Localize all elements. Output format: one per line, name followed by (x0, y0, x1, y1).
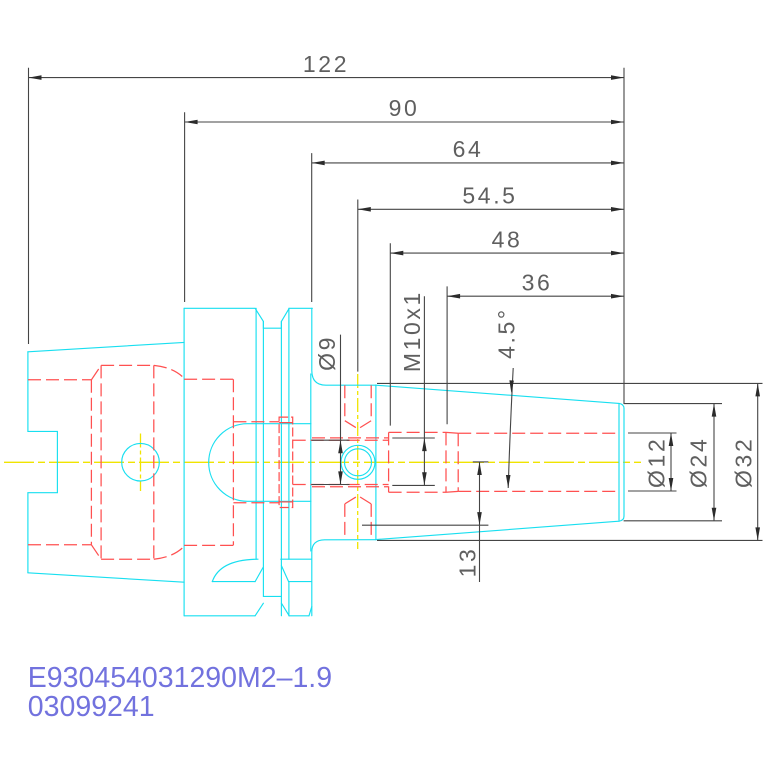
d32 top ext (377, 382, 763, 384)
d32 dim line (757, 383, 759, 540)
flange top profile with V-groove (184, 308, 312, 328)
drive key cap line top (279, 422, 293, 424)
flange right face bottom + fillet (312, 540, 376, 616)
svg-text:03099241: 03099241 (28, 691, 155, 723)
svg-text:122: 122 (303, 51, 349, 77)
coolant cross hole outer circle (341, 445, 375, 479)
flange bottom chamfer left (255, 603, 263, 616)
flange bottom chamfer right inner (281, 603, 289, 616)
drive key cap line bottom (279, 501, 293, 503)
arrow 54.5 right (611, 207, 624, 212)
taper inner circle (122, 443, 160, 481)
dim 54.5 line (358, 208, 624, 210)
arrow 13 top (477, 462, 482, 475)
arrow 90 right (611, 120, 624, 125)
thread box right wall (445, 432, 447, 492)
dim 13 vertical (479, 462, 481, 582)
cone bottom slope (376, 521, 619, 539)
flange vertical edge 281.4 (280, 321, 282, 615)
flange bottom right corner chamfer (309, 607, 312, 616)
d9 dim vertical (340, 335, 342, 485)
groove floor bottom (263, 595, 281, 597)
thread box bottom (389, 491, 446, 493)
d9 tick top (312, 439, 350, 441)
yellow vertical centerline coolant hole (357, 374, 359, 549)
bore d9 top (293, 439, 389, 441)
thread runout vertical (457, 433, 459, 491)
cone top slope (376, 385, 619, 403)
flange bottom edge right segment (289, 615, 309, 617)
arrow d32 bottom (755, 527, 760, 540)
M10 tick bottom (392, 484, 435, 486)
bore chamfer top (91, 365, 101, 379)
M10 dim vertical (423, 296, 425, 485)
dim 36 line (447, 295, 624, 297)
d24 dim line (713, 404, 715, 521)
arrow 122 right (611, 75, 624, 80)
coolant bottom bore left wall (344, 504, 346, 540)
cavity bottom line (184, 544, 233, 546)
arrow d9 top (338, 440, 343, 453)
arrow 48 left (390, 251, 403, 256)
groove waist slope right (281, 566, 288, 582)
dim 54.5 left ext (357, 200, 359, 372)
d9 tick bottom (312, 484, 350, 486)
4.5deg leader (508, 368, 513, 488)
slot bottom line (233, 502, 279, 504)
bore outer bottom line (28, 544, 91, 546)
taper bottom edge (28, 573, 184, 582)
svg-text:13: 13 (455, 547, 481, 578)
arrow 36 right (611, 294, 624, 299)
flange inner fillet line top (310, 374, 312, 551)
coolant bottom bore right wall (370, 504, 372, 540)
svg-text:Ø32: Ø32 (731, 437, 757, 488)
arrow 4.5 bottom (506, 475, 511, 488)
svg-text:E930454031290M2–1.9: E930454031290M2–1.9 (28, 662, 332, 694)
bore vertical 101.1 (100, 365, 102, 559)
flange vertical edge 288.9 lower (288, 582, 290, 616)
flange vertical edge 263.4 (262, 321, 264, 596)
d32 bottom ext (377, 539, 763, 541)
crescent base (212, 581, 255, 583)
flange left face (183, 308, 185, 616)
d12 bore bottom (458, 490, 618, 492)
dim 13 tick top (473, 461, 489, 463)
bore M10 pilot top (312, 437, 389, 439)
arrow 122 left (29, 75, 42, 80)
groove waist base right (289, 581, 312, 583)
d24 bottom ext (624, 520, 722, 522)
bore vertical 91.4 (90, 380, 92, 545)
d12 bore top (458, 432, 618, 434)
dim 13 tick bottom (362, 524, 488, 526)
gripper D-bulge (209, 424, 311, 502)
d24 top ext (624, 403, 722, 405)
dim 48 left ext (389, 243, 391, 425)
thread bottom line (101, 558, 154, 560)
arrow d9 bottom (338, 471, 343, 484)
thread top line (101, 364, 154, 366)
arrow 13 bottom (477, 512, 482, 525)
d12 bottom ext (628, 490, 677, 492)
thread-cavity arc top (154, 365, 185, 379)
crescent arc (212, 559, 258, 581)
thread-cavity arc bottom (154, 545, 185, 559)
arrow d12 top (669, 433, 674, 446)
arrow 64 left (312, 161, 325, 166)
svg-text:4.5°: 4.5° (494, 307, 520, 359)
bore chamfer bottom (91, 545, 101, 559)
cone end inner vertical (618, 405, 620, 521)
thread runout chamfer top (446, 431, 458, 434)
arrow d12 bottom (669, 478, 674, 491)
bore M10 pilot bottom (312, 486, 389, 488)
bore d9 bottom (293, 484, 389, 486)
svg-text:48: 48 (492, 226, 523, 252)
arrow d24 bottom (712, 508, 717, 521)
flange bottom edge left segment (184, 615, 255, 617)
dim 90 line (185, 121, 624, 123)
crescent chamfer (255, 567, 263, 581)
svg-text:M10x1: M10x1 (399, 290, 425, 372)
taper left face with notch (28, 352, 58, 573)
thread runout chamfer bottom (446, 490, 458, 493)
yellow vertical centerline taper circle (140, 434, 142, 492)
thread bore right vertical (153, 365, 155, 559)
arrow 64 right (611, 161, 624, 166)
cone start edge vertical (375, 385, 377, 540)
arrow M10 bottom (422, 472, 427, 485)
dim 48 line (390, 252, 624, 254)
thread box top (389, 431, 446, 433)
dim 64 left ext (311, 153, 313, 302)
dim 122 line (29, 77, 625, 79)
arrow 90 left (185, 120, 198, 125)
arrow d24 top (712, 404, 717, 417)
cone end corner top (619, 403, 624, 408)
yellow horizontal centerline (4, 461, 641, 463)
svg-text:Ø24: Ø24 (686, 437, 712, 488)
svg-text:64: 64 (453, 136, 484, 162)
d12 top ext (628, 432, 677, 434)
cone end corner bottom (619, 516, 624, 521)
d12 dim line (670, 433, 672, 491)
bore outer top line (28, 379, 91, 381)
groove waist silhouette right (281, 558, 312, 560)
flange vertical edge 256.1 (255, 308, 257, 559)
M10 tick top (392, 437, 435, 439)
cone end face (623, 409, 625, 517)
coolant top bore left wall (344, 385, 346, 421)
thread box left wall (388, 432, 390, 492)
slot top line (233, 421, 279, 423)
cavity right vertical (232, 379, 234, 545)
coolant cross hole inner circle (345, 449, 372, 476)
arrow 54.5 left (358, 207, 371, 212)
svg-text:Ø12: Ø12 (644, 437, 670, 488)
arrow 36 left (447, 294, 460, 299)
svg-text:90: 90 (389, 95, 420, 121)
dim 36 left ext (446, 286, 448, 424)
dim 122/90...36 right ext (623, 68, 625, 404)
arrow d32 top (755, 383, 760, 396)
coolant bottom drill point (345, 496, 371, 504)
arrow M10 top (422, 438, 427, 451)
svg-text:Ø9: Ø9 (314, 335, 340, 371)
flange right face top + fillet (312, 308, 376, 385)
taper top edge (28, 342, 184, 351)
arrow 48 right (611, 251, 624, 256)
arrow 4.5 on cone (509, 380, 514, 392)
dim 64 line (312, 162, 624, 164)
svg-text:36: 36 (522, 269, 553, 295)
coolant top bore right wall (370, 385, 372, 421)
flange vertical edge 288.9 upper (288, 308, 290, 559)
dim 90 left ext (184, 112, 186, 302)
coolant top drill point (345, 421, 371, 429)
svg-text:54.5: 54.5 (462, 183, 517, 209)
drive key rectangle outer (279, 417, 293, 507)
cavity top line (184, 378, 233, 380)
dim 122 left ext (28, 68, 30, 344)
